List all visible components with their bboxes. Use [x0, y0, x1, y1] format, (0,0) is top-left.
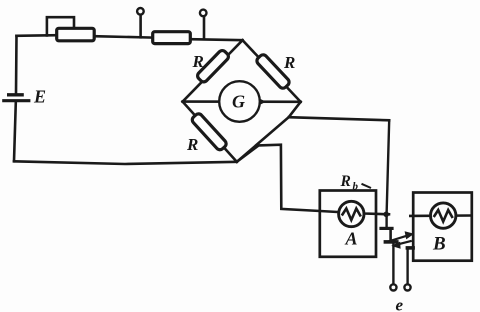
- svg-text:E: E: [33, 87, 46, 107]
- svg-text:e: e: [396, 295, 404, 312]
- svg-text:R: R: [283, 53, 295, 72]
- svg-text:R: R: [186, 135, 198, 154]
- svg-text:A: A: [345, 229, 358, 249]
- svg-text:B: B: [432, 234, 446, 255]
- svg-text:R: R: [192, 52, 204, 71]
- svg-text:b: b: [353, 181, 359, 193]
- svg-text:R: R: [340, 173, 351, 190]
- svg-text:G: G: [232, 92, 245, 112]
